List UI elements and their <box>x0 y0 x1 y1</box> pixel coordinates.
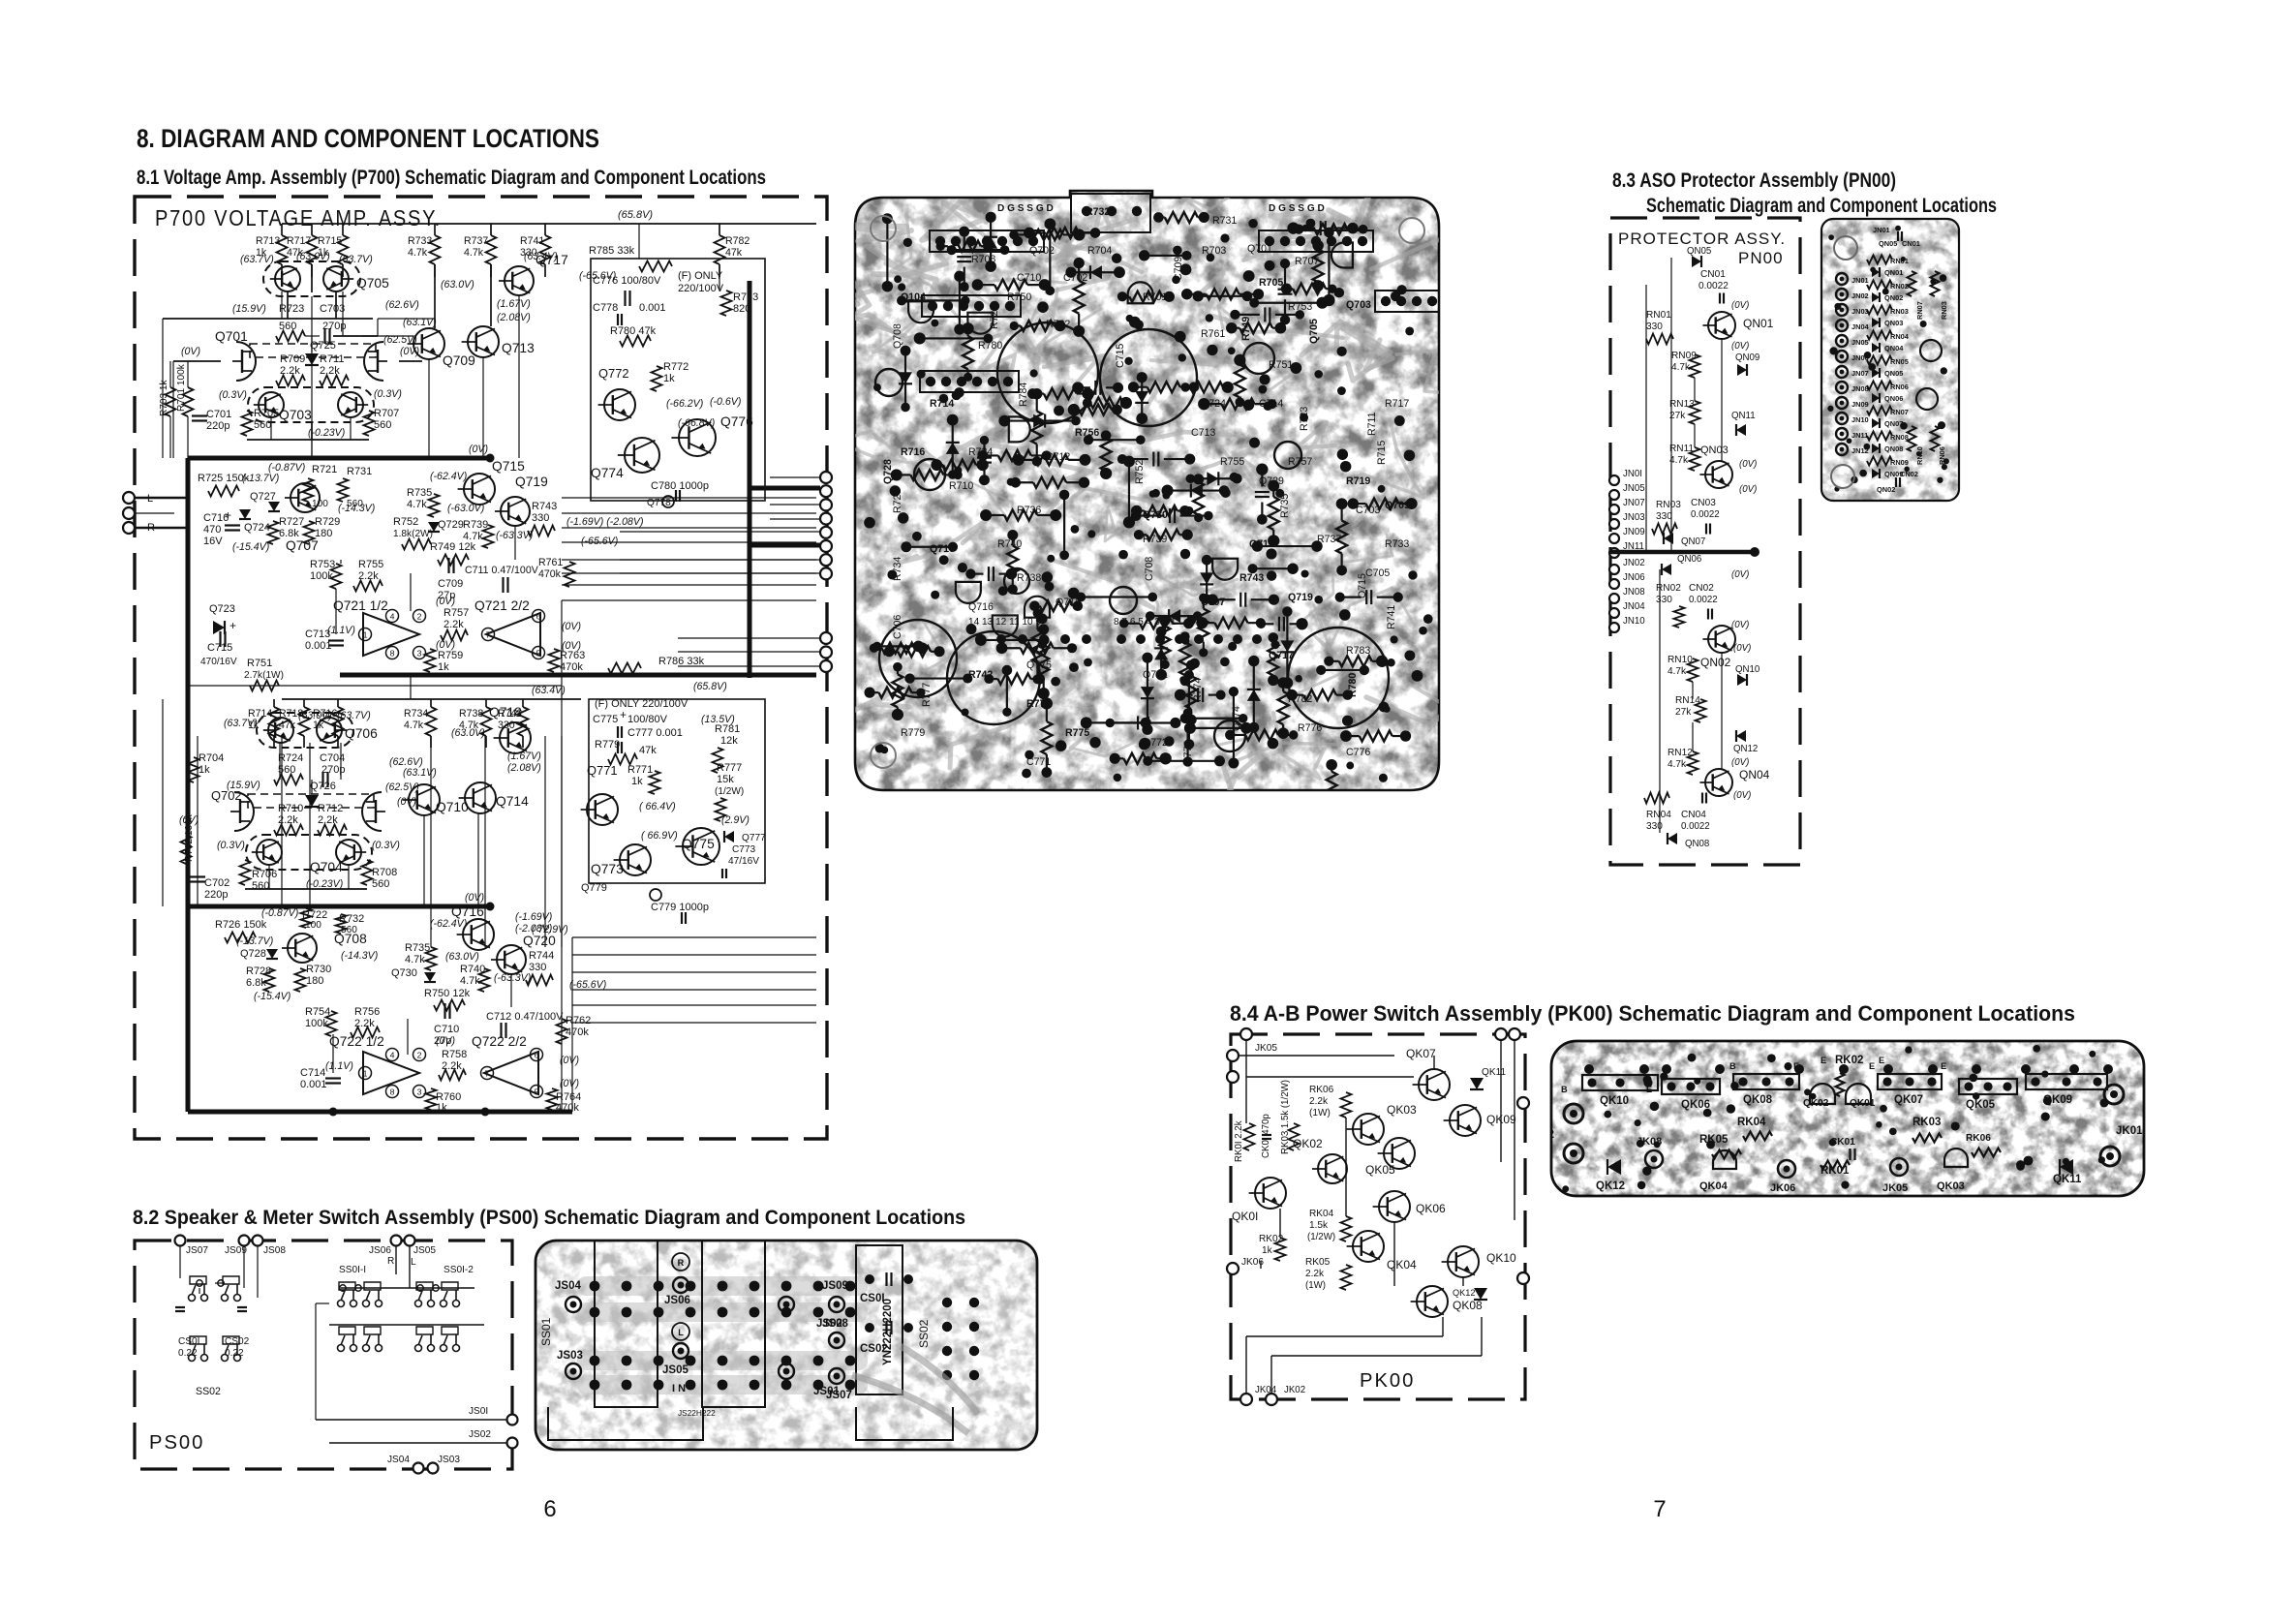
svg-text:Q718: Q718 <box>1056 597 1081 608</box>
svg-text:R: R <box>387 1256 394 1267</box>
svg-text:R729: R729 <box>315 516 340 528</box>
svg-text:Q707: Q707 <box>286 538 319 553</box>
svg-text:QN07: QN07 <box>1884 419 1903 428</box>
svg-text:R735: R735 <box>407 487 432 499</box>
svg-text:8.2 Speaker & Meter Switch As: 8.2 Speaker & Meter Switch Assembly (PS0… <box>133 1206 965 1229</box>
svg-text:(-1.69V) (-2.08V): (-1.69V) (-2.08V) <box>566 516 643 528</box>
svg-text:330: 330 <box>1646 322 1663 332</box>
svg-text:470k: 470k <box>566 1026 589 1038</box>
svg-text:27k: 27k <box>1675 707 1692 718</box>
svg-text:RK04: RK04 <box>1309 1209 1334 1219</box>
svg-text:E: E <box>1793 1061 1799 1071</box>
svg-text:JN09: JN09 <box>1623 527 1645 537</box>
svg-text:(-13.7V): (-13.7V) <box>236 935 273 947</box>
svg-text:R739: R739 <box>463 519 488 531</box>
svg-text:RN01: RN01 <box>1890 257 1909 265</box>
svg-text:JS04: JS04 <box>555 1280 581 1292</box>
svg-text:Q775: Q775 <box>1026 659 1052 671</box>
svg-text:1: 1 <box>363 1068 368 1078</box>
svg-text:E: E <box>1941 1061 1946 1071</box>
svg-text:R752: R752 <box>1134 460 1146 484</box>
svg-text:CN01: CN01 <box>1902 239 1920 248</box>
svg-text:JN08: JN08 <box>1851 384 1869 393</box>
svg-text:(-62.4V): (-62.4V) <box>430 918 467 930</box>
svg-text:(0V): (0V) <box>397 796 416 808</box>
svg-text:R749 12k: R749 12k <box>430 541 476 553</box>
svg-text:47k: 47k <box>639 745 657 756</box>
svg-text:QN08: QN08 <box>1884 444 1903 453</box>
svg-text:R756: R756 <box>1075 427 1099 439</box>
svg-text:SS0I-I: SS0I-I <box>339 1265 366 1275</box>
svg-text:QN01: QN01 <box>1884 268 1903 277</box>
svg-text:QN04: QN04 <box>1884 344 1904 352</box>
svg-text:330: 330 <box>532 512 549 524</box>
svg-text:6: 6 <box>536 611 541 621</box>
svg-text:Q721 2/2: Q721 2/2 <box>474 598 530 613</box>
svg-text:JN02: JN02 <box>1851 291 1869 300</box>
svg-text:560: 560 <box>372 878 389 890</box>
svg-text:(-0.87V): (-0.87V) <box>268 462 305 474</box>
svg-text:R707: R707 <box>1295 256 1319 267</box>
svg-text:Q779: Q779 <box>581 882 607 894</box>
svg-text:RN09: RN09 <box>1890 458 1909 467</box>
svg-text:(0.3V): (0.3V) <box>219 389 247 401</box>
svg-text:( 66.4V): ( 66.4V) <box>639 801 676 812</box>
svg-text:220p: 220p <box>206 420 229 432</box>
svg-text:C701: C701 <box>206 409 231 420</box>
svg-text:R761: R761 <box>1201 328 1225 340</box>
svg-text:7: 7 <box>485 1068 490 1078</box>
svg-text:JS06: JS06 <box>664 1295 690 1306</box>
svg-text:QK06: QK06 <box>1416 1202 1446 1215</box>
svg-text:(-0.87V): (-0.87V) <box>261 907 298 919</box>
svg-text:JN01: JN01 <box>1873 226 1890 234</box>
svg-text:2.2k: 2.2k <box>1309 1096 1329 1107</box>
svg-text:(-65.6V): (-65.6V) <box>569 979 606 991</box>
svg-text:JK04: JK04 <box>1255 1385 1277 1395</box>
svg-text:JK05: JK05 <box>1255 1043 1277 1054</box>
svg-text:1k: 1k <box>438 661 449 673</box>
svg-text:Q727: Q727 <box>250 491 276 503</box>
svg-text:R738: R738 <box>1017 572 1041 584</box>
svg-text:R710: R710 <box>949 480 973 492</box>
svg-text:(15.9V): (15.9V) <box>232 303 266 315</box>
svg-text:0.0022: 0.0022 <box>1698 281 1729 291</box>
svg-text:(0V): (0V) <box>1731 569 1749 580</box>
svg-text:14 13 12 11 10 9: 14 13 12 11 10 9 <box>968 617 1041 628</box>
svg-text:4.7k: 4.7k <box>1668 759 1687 770</box>
svg-text:(-13.7V): (-13.7V) <box>242 473 279 484</box>
svg-text:8.1 Voltage Amp. Assembly (P7: 8.1 Voltage Amp. Assembly (P700) Schemat… <box>137 166 766 189</box>
svg-text:Q715: Q715 <box>492 459 525 474</box>
svg-text:QN06: QN06 <box>1677 554 1701 565</box>
svg-text:0.001: 0.001 <box>300 1079 327 1090</box>
svg-text:PN00: PN00 <box>1738 249 1784 267</box>
svg-text:QK05: QK05 <box>1966 1099 1996 1111</box>
svg-text:RK02: RK02 <box>1835 1055 1863 1066</box>
svg-text:JS07: JS07 <box>186 1245 208 1256</box>
svg-text:RN06: RN06 <box>1938 446 1946 465</box>
svg-text:Q701: Q701 <box>1247 243 1272 255</box>
svg-text:RN05: RN05 <box>1890 357 1909 366</box>
svg-text:(-1.69V): (-1.69V) <box>515 911 552 923</box>
svg-text:R738: R738 <box>459 708 483 720</box>
svg-text:JS06: JS06 <box>369 1245 391 1256</box>
svg-text:RN04: RN04 <box>1890 332 1910 341</box>
svg-text:0.001: 0.001 <box>639 302 666 314</box>
svg-text:C773: C773 <box>732 844 756 855</box>
svg-text:C772: C772 <box>1182 741 1194 765</box>
svg-text:R785 33k: R785 33k <box>589 245 635 257</box>
svg-text:CN03: CN03 <box>1691 498 1716 508</box>
svg-text:R740: R740 <box>997 538 1022 550</box>
svg-text:C776: C776 <box>1346 747 1370 758</box>
svg-text:R742: R742 <box>968 669 993 681</box>
svg-text:(63.4V): (63.4V) <box>532 685 566 696</box>
svg-text:QK03: QK03 <box>1387 1103 1417 1117</box>
svg-text:4: 4 <box>390 1050 395 1059</box>
svg-text:RN04: RN04 <box>1646 810 1671 820</box>
svg-text:JN07: JN07 <box>1623 498 1645 508</box>
svg-text:JN12: JN12 <box>1851 446 1869 455</box>
svg-text:JN04: JN04 <box>1623 601 1645 612</box>
svg-text:JS08: JS08 <box>822 1318 848 1330</box>
svg-text:CS02: CS02 <box>225 1336 250 1347</box>
svg-text:JN01: JN01 <box>1851 276 1869 285</box>
svg-text:(63.0V): (63.0V) <box>441 279 474 291</box>
svg-text:Q720: Q720 <box>523 934 556 948</box>
svg-text:270p: 270p <box>321 764 345 776</box>
svg-text:(1.67V): (1.67V) <box>507 751 541 762</box>
svg-text:470: 470 <box>203 524 221 536</box>
svg-text:560: 560 <box>254 419 271 431</box>
svg-text:0.22: 0.22 <box>178 1348 198 1359</box>
svg-text:(2.9V): (2.9V) <box>721 814 750 826</box>
svg-text:R721: R721 <box>312 464 337 475</box>
svg-text:6: 6 <box>535 1050 539 1059</box>
svg-text:R750: R750 <box>1007 291 1031 303</box>
svg-text:JN0I: JN0I <box>1623 469 1642 479</box>
svg-text:JN05: JN05 <box>1623 483 1645 494</box>
svg-text:0.0022: 0.0022 <box>1681 821 1710 832</box>
svg-text:47/16V: 47/16V <box>728 856 759 867</box>
svg-text:JK06: JK06 <box>1770 1182 1795 1194</box>
svg-text:QN02: QN02 <box>1700 656 1731 669</box>
svg-text:QN03: QN03 <box>1700 444 1729 456</box>
svg-text:Q703: Q703 <box>1346 299 1371 311</box>
svg-text:R711: R711 <box>320 353 344 365</box>
svg-text:1k: 1k <box>199 764 210 776</box>
svg-text:(-15.4V): (-15.4V) <box>232 541 269 553</box>
svg-text:JN06: JN06 <box>1851 353 1869 362</box>
svg-text:QK08: QK08 <box>1743 1094 1773 1106</box>
svg-text:(-0.23V): (-0.23V) <box>308 427 345 439</box>
svg-text:I N: I N <box>672 1383 686 1394</box>
svg-text:1.8k(2W): 1.8k(2W) <box>393 529 433 539</box>
svg-text:R711: R711 <box>1366 412 1378 436</box>
svg-text:+: + <box>620 708 627 721</box>
svg-text:(0V): (0V) <box>1731 757 1749 768</box>
svg-text:R731: R731 <box>347 466 372 477</box>
svg-text:R750 12k: R750 12k <box>424 988 471 999</box>
svg-text:JN10: JN10 <box>1851 415 1869 424</box>
svg-text:R777: R777 <box>717 762 742 774</box>
svg-text:(0.3V): (0.3V) <box>217 840 245 851</box>
svg-text:R724: R724 <box>968 446 993 458</box>
svg-text:Q774: Q774 <box>591 466 624 480</box>
svg-text:4: 4 <box>390 611 395 621</box>
svg-text:R701: R701 <box>1143 291 1167 303</box>
svg-text:D G S S G D: D G S S G D <box>1269 203 1325 214</box>
svg-text:4.7k: 4.7k <box>407 499 427 510</box>
svg-text:RN10: RN10 <box>1915 446 1924 465</box>
svg-text:R772: R772 <box>663 361 688 373</box>
svg-text:4.7k: 4.7k <box>1669 455 1689 466</box>
svg-text:JN07: JN07 <box>1851 369 1869 378</box>
svg-text:Q719: Q719 <box>1288 592 1313 603</box>
svg-text:D G S S G D: D G S S G D <box>997 203 1054 214</box>
svg-text:Q772: Q772 <box>1143 737 1168 749</box>
svg-text:2.2k: 2.2k <box>444 619 464 630</box>
svg-text:Q713: Q713 <box>1249 538 1274 550</box>
svg-text:R757: R757 <box>1288 456 1312 468</box>
svg-text:(63.7V): (63.7V) <box>224 718 258 729</box>
svg-text:C776 100/80V: C776 100/80V <box>593 275 661 287</box>
svg-text:4.7k: 4.7k <box>404 720 424 731</box>
svg-text:RK05: RK05 <box>1699 1134 1729 1146</box>
svg-text:R780: R780 <box>978 340 1002 352</box>
svg-text:RN06: RN06 <box>1890 383 1909 391</box>
svg-text:470k: 470k <box>538 568 562 580</box>
svg-text:100: 100 <box>312 499 328 509</box>
svg-text:R743: R743 <box>532 501 557 512</box>
svg-text:(63.7V): (63.7V) <box>339 254 373 265</box>
svg-text:R716: R716 <box>901 446 925 458</box>
svg-text:R784: R784 <box>1018 383 1029 407</box>
svg-text:4.7k: 4.7k <box>460 975 480 987</box>
svg-text:R739: R739 <box>1143 534 1167 545</box>
svg-text:Q708: Q708 <box>334 932 367 946</box>
svg-text:Q714: Q714 <box>496 794 529 809</box>
svg-text:180: 180 <box>306 975 323 987</box>
svg-text:C712 0.47/100V: C712 0.47/100V <box>486 1011 564 1023</box>
svg-text:(0V): (0V) <box>465 892 484 904</box>
svg-text:1.5k: 1.5k <box>1309 1220 1329 1231</box>
svg-text:6.8k: 6.8k <box>246 977 266 989</box>
svg-text:(0V): (0V) <box>1731 620 1749 630</box>
svg-text:C714: C714 <box>1259 398 1283 410</box>
svg-text:330: 330 <box>1646 821 1663 832</box>
svg-text:8.3 ASO Protector Assembly (P: 8.3 ASO Protector Assembly (PN00) <box>1612 169 1896 192</box>
svg-text:CN01: CN01 <box>1700 269 1726 280</box>
svg-text:Q104: Q104 <box>901 291 926 303</box>
svg-text:QK03: QK03 <box>1937 1180 1965 1192</box>
svg-text:JS0I: JS0I <box>469 1406 488 1417</box>
svg-text:C778: C778 <box>593 302 618 314</box>
svg-text:QK12: QK12 <box>1453 1288 1476 1298</box>
svg-text:R720: R720 <box>892 489 903 513</box>
svg-text:Q709: Q709 <box>443 353 475 368</box>
svg-text:Q704: Q704 <box>310 860 343 874</box>
svg-text:JS07: JS07 <box>826 1390 852 1401</box>
svg-text:JS05: JS05 <box>413 1245 436 1256</box>
svg-text:0.0022: 0.0022 <box>1691 509 1720 520</box>
svg-text:QK07: QK07 <box>1894 1094 1923 1106</box>
svg-text:R751: R751 <box>247 658 272 669</box>
svg-text:QN03: QN03 <box>1884 319 1903 327</box>
svg-text:(0V): (0V) <box>469 444 488 455</box>
svg-text:3: 3 <box>417 1087 422 1096</box>
svg-text:(63.0V): (63.0V) <box>298 710 332 721</box>
svg-text:RK04: RK04 <box>1737 1117 1766 1128</box>
svg-text:Q705: Q705 <box>356 276 389 291</box>
svg-text:4.7k: 4.7k <box>405 954 425 965</box>
svg-text:C711 0.47/100V: C711 0.47/100V <box>465 565 539 576</box>
svg-text:R712: R712 <box>318 803 343 814</box>
svg-text:8. DIAGRAM AND COMPONENT L: 8. DIAGRAM AND COMPONENT LOCATIONS <box>137 124 599 153</box>
svg-text:C703: C703 <box>1356 505 1380 516</box>
svg-text:RN08: RN08 <box>1890 433 1909 442</box>
svg-text:JN05: JN05 <box>1851 338 1869 347</box>
svg-text:(0V): (0V) <box>562 621 581 632</box>
svg-text:560: 560 <box>252 880 269 892</box>
svg-text:R733: R733 <box>1385 538 1409 550</box>
svg-text:RN03: RN03 <box>1656 500 1681 510</box>
svg-text:CN02: CN02 <box>1689 583 1714 594</box>
svg-text:5: 5 <box>535 1087 539 1096</box>
svg-text:R733: R733 <box>408 235 432 247</box>
svg-text:3: 3 <box>417 648 422 658</box>
svg-text:RN03: RN03 <box>1890 307 1909 316</box>
svg-text:Q722 1/2: Q722 1/2 <box>329 1034 384 1049</box>
svg-text:(62.6V): (62.6V) <box>385 299 419 311</box>
svg-text:RN01: RN01 <box>1646 310 1671 321</box>
svg-text:QK04: QK04 <box>1387 1258 1417 1272</box>
svg-text:Q718: Q718 <box>489 705 522 720</box>
svg-text:R763: R763 <box>560 650 585 661</box>
svg-text:C714: C714 <box>300 1067 325 1079</box>
svg-text:R719: R719 <box>1346 475 1370 487</box>
svg-text:(-15.4V): (-15.4V) <box>254 991 291 1002</box>
svg-text:R734: R734 <box>892 557 903 581</box>
svg-text:CN02: CN02 <box>1900 470 1918 478</box>
svg-text:7: 7 <box>486 629 491 639</box>
svg-text:R762: R762 <box>1046 319 1070 330</box>
svg-text:C707: C707 <box>1201 597 1225 608</box>
svg-text:(0V): (0V) <box>1733 790 1751 801</box>
svg-text:R744: R744 <box>529 950 554 962</box>
svg-text:B: B <box>1561 1085 1568 1094</box>
svg-text:C705: C705 <box>1365 567 1390 579</box>
svg-text:Q717: Q717 <box>1269 650 1294 661</box>
svg-text:1k: 1k <box>1262 1245 1273 1256</box>
svg-text:RK05: RK05 <box>1305 1257 1331 1268</box>
svg-text:Q725: Q725 <box>310 340 336 352</box>
svg-text:Q716: Q716 <box>451 904 484 919</box>
svg-text:E: E <box>1879 1056 1884 1065</box>
svg-text:330: 330 <box>529 962 546 973</box>
svg-text:E: E <box>1869 1061 1875 1071</box>
svg-text:R726 150k: R726 150k <box>215 919 267 931</box>
svg-text:R717: R717 <box>287 235 311 247</box>
svg-text:(1W): (1W) <box>1305 1280 1326 1291</box>
svg-text:C777 0.001: C777 0.001 <box>627 727 683 739</box>
svg-text:JS22H222: JS22H222 <box>678 1408 716 1418</box>
svg-text:JN10: JN10 <box>1623 616 1645 627</box>
svg-text:QK0I: QK0I <box>1232 1210 1258 1223</box>
svg-text:JS02: JS02 <box>469 1429 491 1440</box>
svg-text:CS02: CS02 <box>860 1343 888 1355</box>
svg-text:(-63.0V): (-63.0V) <box>447 503 484 514</box>
svg-text:R737: R737 <box>1317 534 1341 545</box>
svg-text:(F) ONLY: (F) ONLY <box>678 270 723 282</box>
svg-text:Q702: Q702 <box>1029 245 1055 257</box>
svg-text:(0V): (0V) <box>560 1055 579 1066</box>
svg-text:R: R <box>678 1258 685 1268</box>
svg-text:R704: R704 <box>1087 245 1112 257</box>
svg-text:JS03: JS03 <box>557 1350 583 1362</box>
svg-text:C710: C710 <box>1017 272 1041 284</box>
svg-text:R755: R755 <box>358 559 383 570</box>
svg-text:E: E <box>1646 1085 1652 1094</box>
svg-text:RK06: RK06 <box>1966 1133 1991 1144</box>
svg-text:(2.08V): (2.08V) <box>497 312 531 323</box>
svg-text:4.7k: 4.7k <box>408 247 428 259</box>
svg-text:(1W): (1W) <box>1309 1108 1331 1118</box>
svg-text:(-14.3V): (-14.3V) <box>338 503 375 514</box>
svg-text:CK01: CK01 <box>1830 1137 1855 1148</box>
svg-text:JS08: JS08 <box>263 1245 286 1256</box>
svg-text:QK10: QK10 <box>1486 1251 1516 1265</box>
svg-text:(63.7V): (63.7V) <box>240 254 274 265</box>
svg-text:Q778: Q778 <box>647 498 671 508</box>
svg-text:C710: C710 <box>434 1024 459 1035</box>
svg-text:QN05: QN05 <box>1884 369 1903 378</box>
svg-text:2: 2 <box>417 611 422 621</box>
svg-text:QN08: QN08 <box>1685 839 1709 849</box>
svg-text:Q708: Q708 <box>892 323 903 349</box>
svg-text:4.7k: 4.7k <box>464 247 484 259</box>
svg-text:QN05: QN05 <box>1687 246 1711 257</box>
svg-text:6: 6 <box>543 1496 556 1522</box>
svg-text:R775: R775 <box>1065 727 1089 739</box>
svg-text:R737: R737 <box>464 235 488 247</box>
svg-text:4.7k: 4.7k <box>1668 666 1687 677</box>
svg-text:JN03: JN03 <box>1851 307 1869 316</box>
svg-text:R703 1k: R703 1k <box>159 379 169 416</box>
svg-text:CS0I: CS0I <box>860 1293 885 1304</box>
svg-text:Q730: Q730 <box>391 967 417 979</box>
svg-text:R782: R782 <box>725 235 750 247</box>
svg-text:(0V): (0V) <box>436 1035 455 1047</box>
svg-text:RK06: RK06 <box>1309 1085 1334 1095</box>
svg-text:0.0022: 0.0022 <box>1689 595 1718 605</box>
svg-text:Q710: Q710 <box>436 800 469 814</box>
svg-text:JN11: JN11 <box>1851 431 1868 440</box>
svg-text:JS04: JS04 <box>387 1455 410 1465</box>
svg-text:Q774: Q774 <box>1231 706 1242 731</box>
svg-text:Q724: Q724 <box>244 522 270 534</box>
svg-text:JS09: JS09 <box>822 1280 848 1292</box>
svg-text:R741: R741 <box>1386 605 1397 629</box>
svg-text:C702: C702 <box>1063 272 1087 284</box>
svg-text:Q729: Q729 <box>438 519 464 531</box>
svg-text:JS05: JS05 <box>662 1364 688 1376</box>
svg-text:R722: R722 <box>989 305 1000 329</box>
svg-text:(-65.6V): (-65.6V) <box>581 536 618 547</box>
svg-text:Q701: Q701 <box>215 329 248 344</box>
svg-text:QK09: QK09 <box>2043 1094 2072 1106</box>
